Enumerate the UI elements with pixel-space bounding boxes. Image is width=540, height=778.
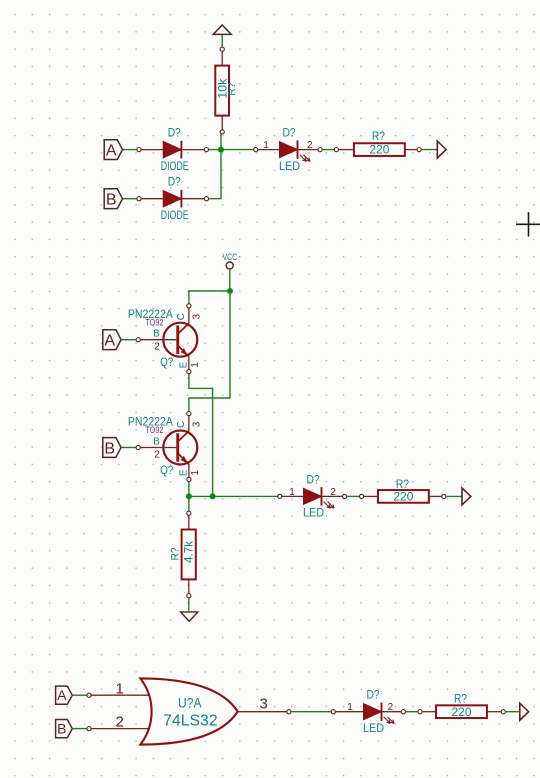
wire VCC node to Q1 collector [189, 291, 230, 304]
svg-text:2: 2 [330, 487, 336, 498]
wire D2 cathode up to node [208, 152, 221, 199]
power symbol VCC [222, 252, 237, 269]
svg-text:3: 3 [260, 696, 268, 713]
LED D? (row 2) [303, 474, 334, 519]
svg-text:U?A: U?A [178, 696, 202, 711]
svg-text:B: B [104, 440, 115, 457]
wire LED cathode to R2 [322, 149, 335, 151]
resistor R3 220 pins (row 2) [360, 494, 446, 498]
svg-text:Q?: Q? [160, 463, 173, 477]
wire Q1 emitter to output node [189, 374, 213, 497]
svg-text:A: A [57, 687, 67, 703]
svg-text:A: A [106, 142, 117, 159]
svg-text:C: C [176, 313, 187, 320]
svg-text:1: 1 [116, 680, 124, 697]
junction VCC node [227, 288, 233, 294]
svg-text:74LS32: 74LS32 [163, 712, 218, 729]
svg-text:LED: LED [279, 161, 300, 173]
svg-text:R?: R? [170, 548, 182, 561]
wire Q2 emitter to output node [188, 481, 190, 496]
svg-text:D?: D? [307, 474, 320, 486]
wire A label to gate pin 1 [72, 694, 87, 696]
svg-text:D?: D? [168, 127, 181, 139]
resistor R? 220 (row 3) [436, 692, 487, 719]
svg-text:3: 3 [191, 313, 202, 319]
svg-text:TO92: TO92 [145, 317, 163, 327]
LED D? (row 1) [279, 127, 310, 173]
wire output node to LED (row 2) [189, 495, 278, 497]
svg-text:4.7k: 4.7k [181, 540, 195, 563]
junction node (diode OR output) [218, 147, 224, 153]
wire A label to D1 anode [123, 149, 138, 151]
wire R2 to output arrow [421, 149, 437, 151]
output arrow (row 1) [437, 141, 446, 158]
svg-text:B: B [57, 721, 66, 737]
diode D? (B input) [161, 177, 189, 222]
svg-text:220: 220 [369, 143, 389, 157]
svg-text:1: 1 [263, 140, 269, 151]
or-gate output pin [238, 710, 292, 714]
wire R1 bottom to node [220, 134, 222, 150]
svg-text:3: 3 [191, 421, 202, 427]
svg-text:VCC: VCC [222, 252, 237, 263]
global label B (Q2 base) [103, 438, 121, 458]
svg-text:R?: R? [226, 82, 238, 95]
transistor Q? PN2222A (Q1) [128, 304, 202, 374]
resistor R? 220 (row 1) [354, 129, 405, 156]
junction Q1 emitter node [210, 493, 216, 499]
svg-text:D?: D? [168, 177, 181, 189]
svg-text:2: 2 [388, 702, 394, 713]
resistor R2 220 pins (row 1) [334, 148, 421, 152]
svg-text:1: 1 [190, 362, 201, 368]
global label A (input) [104, 140, 122, 160]
ground [181, 612, 198, 621]
LED D? pins (row 3) [331, 710, 405, 714]
diode D? (A input) [161, 127, 189, 172]
svg-text:DIODE: DIODE [161, 161, 189, 173]
svg-text:2: 2 [116, 714, 124, 731]
LED D? (row 3) [363, 689, 394, 735]
svg-text:D?: D? [367, 689, 380, 701]
global label B (input) [104, 189, 122, 209]
diode D1 pins [137, 148, 209, 152]
global label A (Q1 base) [103, 330, 121, 350]
wire B label to D2 anode [123, 198, 138, 200]
resistor R? 220 (row 2) [378, 477, 429, 503]
LED D? pins (row 1) [254, 148, 323, 152]
wire R5 to output arrow (row 3) [505, 711, 519, 713]
svg-text:R?: R? [454, 692, 467, 706]
wire D1 cathode to LED node [208, 149, 254, 151]
or-gate U?A 74LS32 [140, 678, 237, 744]
svg-text:Q?: Q? [160, 355, 173, 369]
svg-text:2: 2 [154, 342, 160, 353]
wire gate output to LED (row 3) [291, 711, 332, 713]
svg-text:C: C [176, 421, 187, 428]
svg-text:A: A [104, 332, 115, 349]
svg-text:DIODE: DIODE [161, 210, 189, 222]
junction Q2 emitter node [186, 493, 192, 499]
svg-text:220: 220 [452, 705, 472, 719]
wire output node down to R4 [188, 496, 190, 511]
svg-text:B: B [106, 191, 117, 208]
svg-text:R?: R? [372, 129, 385, 143]
wire R3 to output arrow (row 2) [446, 495, 462, 497]
output arrow (row 3) [520, 703, 529, 720]
svg-text:E: E [178, 469, 189, 476]
svg-text:E: E [178, 361, 189, 368]
global label B (gate input 2) [56, 720, 73, 738]
resistor R5 220 pins (row 3) [418, 710, 506, 714]
wire LED to R5 (row 3) [405, 711, 418, 713]
resistor R? 4.7k [170, 530, 196, 580]
svg-text:2: 2 [307, 140, 313, 151]
wire R4 to ground [188, 598, 190, 611]
svg-text:LED: LED [303, 508, 324, 520]
wire VCC node to Q2 collector [189, 291, 230, 412]
svg-text:1: 1 [347, 702, 353, 713]
resistor R? 4.7k pins [187, 511, 191, 598]
wire A label to Q1 base [121, 339, 136, 341]
svg-text:TO92: TO92 [145, 425, 163, 435]
LED D? pins (row 2) [278, 494, 347, 498]
svg-text:1: 1 [289, 487, 295, 498]
global label A (gate input 1) [56, 686, 73, 704]
svg-text:B: B [153, 329, 160, 340]
wire LED to R3 (row 2) [347, 495, 360, 497]
svg-text:D?: D? [283, 127, 296, 139]
cursor crosshair [516, 212, 540, 236]
svg-text:220: 220 [393, 490, 413, 504]
output arrow (row 2) [462, 488, 471, 505]
svg-text:B: B [153, 437, 160, 448]
svg-text:2: 2 [154, 449, 160, 460]
or-gate input pins [87, 693, 150, 731]
wire B label to Q2 base [121, 447, 136, 449]
svg-text:1: 1 [190, 470, 201, 476]
transistor Q? PN2222A (Q2) [128, 412, 202, 482]
wire VCC to junction [229, 269, 231, 291]
diode D2 pins [137, 197, 209, 201]
wire B label to gate pin 2 [72, 728, 87, 730]
power symbol (up arrow) [213, 25, 231, 51]
svg-text:LED: LED [363, 723, 384, 735]
resistor R1 10k (pull-up) [215, 51, 238, 134]
